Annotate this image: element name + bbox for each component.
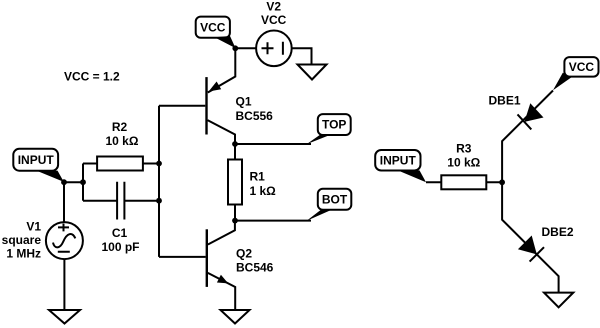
svg-text:INPUT: INPUT (18, 153, 55, 167)
svg-text:VCC: VCC (200, 21, 226, 35)
svg-text:R1: R1 (250, 170, 266, 184)
svg-text:Q1: Q1 (236, 95, 252, 109)
svg-text:VCC: VCC (261, 13, 287, 27)
svg-text:DBE1: DBE1 (488, 94, 520, 108)
svg-text:R3: R3 (456, 142, 472, 156)
svg-text:V1: V1 (26, 220, 41, 234)
svg-text:VCC: VCC (569, 60, 595, 74)
svg-text:square: square (2, 233, 42, 247)
svg-text:INPUT: INPUT (380, 154, 417, 168)
svg-text:10 kΩ: 10 kΩ (106, 134, 139, 148)
svg-text:DBE2: DBE2 (542, 225, 574, 239)
svg-text:100 pF: 100 pF (101, 240, 139, 254)
svg-text:C1: C1 (112, 226, 128, 240)
svg-text:BOT: BOT (322, 193, 348, 207)
svg-text:10 kΩ: 10 kΩ (447, 155, 480, 169)
svg-text:R2: R2 (112, 120, 128, 134)
svg-text:BC546: BC546 (236, 261, 274, 275)
svg-text:Q2: Q2 (236, 247, 252, 261)
svg-text:BC556: BC556 (236, 109, 274, 123)
svg-text:1 kΩ: 1 kΩ (250, 184, 277, 198)
svg-text:V2: V2 (266, 0, 281, 14)
svg-text:VCC = 1.2: VCC = 1.2 (64, 70, 120, 84)
svg-text:TOP: TOP (322, 118, 346, 132)
svg-text:1 MHz: 1 MHz (6, 247, 41, 261)
